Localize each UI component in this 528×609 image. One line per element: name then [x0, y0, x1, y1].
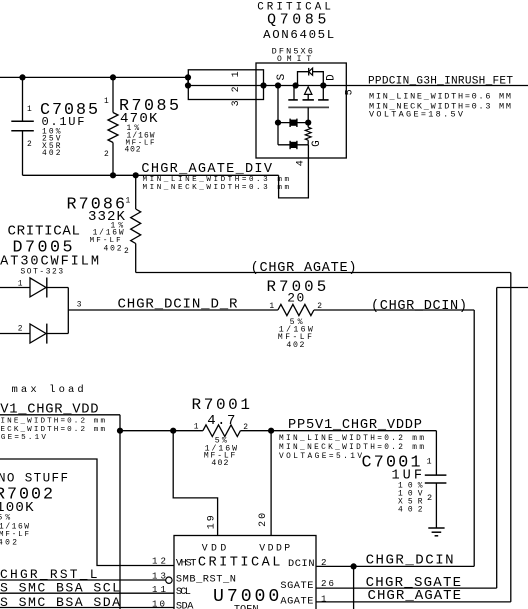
junction: [275, 120, 281, 126]
wire SMC_BSA_SCL: [0, 592, 174, 594]
junction: [351, 563, 357, 569]
svg-text:CHGR_DCIN: CHGR_DCIN: [366, 553, 454, 569]
svg-text:CRITICAL: CRITICAL: [198, 555, 281, 570]
svg-text:MIN_NECK_WIDTH=0.3 mm: MIN_NECK_WIDTH=0.3 mm: [143, 184, 290, 192]
svg-text:2: 2: [18, 325, 23, 334]
svg-text:VOLTAGE=18.5V: VOLTAGE=18.5V: [369, 109, 464, 119]
junction: [320, 82, 326, 88]
svg-text:CHGR_DCIN_D_R: CHGR_DCIN_D_R: [118, 297, 239, 313]
svg-text:MIN_NECK_WIDTH=0.2 mm: MIN_NECK_WIDTH=0.2 mm: [279, 444, 424, 452]
svg-text:402: 402: [0, 538, 17, 547]
svg-text:2: 2: [427, 493, 432, 503]
junction: [170, 428, 176, 434]
svg-text:VDDP: VDDP: [259, 542, 290, 553]
svg-text:5: 5: [345, 89, 356, 95]
resistor R7086: [131, 175, 141, 272]
resistor R7085: [108, 77, 118, 175]
U7000 pin 13 inversion bubble: [166, 577, 172, 583]
junction: [293, 82, 299, 88]
svg-text:1: 1: [269, 302, 274, 311]
PPDCIN net properties: [369, 92, 511, 120]
PP5V1_CHGR_VDD net properties: [0, 418, 105, 442]
svg-text:MIN_NECK_WIDTH=0.2 mm: MIN_NECK_WIDTH=0.2 mm: [0, 426, 105, 434]
wire D7005 common cathode: [67, 288, 69, 334]
wire zener row 2: [278, 144, 308, 146]
svg-text:1: 1: [27, 105, 32, 114]
svg-text:2: 2: [243, 423, 248, 432]
wire node CHGR_AGATE_DIV bottom rail: [23, 174, 279, 176]
svg-text:1: 1: [194, 422, 199, 431]
svg-text:1: 1: [321, 594, 327, 605]
junction: [185, 74, 191, 80]
svg-text:A max load: A max load: [0, 384, 84, 396]
Q7085 body diode: [298, 68, 324, 86]
svg-text:402: 402: [398, 505, 423, 514]
svg-text:3: 3: [231, 100, 242, 106]
svg-text:AGATE: AGATE: [280, 595, 313, 607]
svg-text:TQFN: TQFN: [234, 604, 259, 609]
R7005 value labels: [267, 278, 327, 350]
U7000 labels: [198, 542, 290, 609]
net CHGR_DCIN_D_R label: [118, 297, 239, 313]
R7001 value labels: [192, 396, 251, 468]
net S_SMC_BSA_SCL label: [0, 581, 120, 596]
wire top rail to Q7085 sources: [0, 77, 188, 85]
svg-text:1: 1: [126, 197, 131, 206]
svg-text:MIN_LINE_WIDTH=0.2 mm: MIN_LINE_WIDTH=0.2 mm: [0, 418, 105, 426]
svg-text:R7001: R7001: [192, 396, 251, 414]
net PP5V1_CHGR_VDD label: [0, 403, 99, 418]
CHGR_AGATE_DIV net properties: [143, 176, 290, 192]
net CHGR_DCIN label: [366, 553, 454, 569]
svg-text:S_SMC_BSA_SDA: S_SMC_BSA_SDA: [0, 595, 120, 609]
wire CHGR_DCIN row: [316, 566, 474, 609]
svg-text:DCIN: DCIN: [288, 558, 315, 570]
PP5V1_CHGR_VDDP net properties: [279, 435, 424, 461]
svg-text:AON6405L: AON6405L: [263, 28, 334, 42]
note max load: [0, 384, 84, 396]
resistor R7005: [278, 304, 314, 315]
junction: [117, 428, 123, 434]
svg-text:VHST: VHST: [176, 558, 197, 570]
wire CHGR_AGATE: [136, 273, 511, 602]
net (CHGR_AGATE) label: [251, 261, 357, 276]
wire CHGR_SGATE: [316, 288, 528, 589]
svg-text:26: 26: [321, 578, 334, 589]
svg-text:PP5V1_CHGR_VDDP: PP5V1_CHGR_VDDP: [288, 418, 422, 433]
net PP5V1_CHGR_VDDP label: [288, 418, 422, 433]
svg-text:402: 402: [42, 149, 61, 158]
junction: [19, 74, 25, 80]
C7085 value labels: [40, 101, 98, 158]
junction: [133, 172, 139, 178]
wire VHST from left: [0, 459, 174, 566]
svg-text:PPDCIN_G3H_INRUSH_FET: PPDCIN_G3H_INRUSH_FET: [368, 76, 513, 88]
junction: [185, 82, 191, 88]
R7086 value labels: [67, 196, 126, 254]
svg-text:2: 2: [104, 150, 109, 159]
C7001 value labels: [362, 454, 423, 515]
wire Q7085 internal source branch: [277, 86, 279, 145]
zener diode pair upper: [290, 119, 297, 127]
wire gate connection: [279, 145, 309, 198]
wire CHGR_RST_L: [0, 579, 166, 581]
svg-text:Q7085: Q7085: [267, 13, 326, 29]
svg-text:2: 2: [124, 247, 129, 256]
ground: [428, 528, 444, 536]
svg-text:VDD: VDD: [202, 542, 227, 553]
svg-text:20: 20: [258, 513, 269, 527]
svg-text:1: 1: [18, 279, 23, 288]
wire main S-D rail: [188, 85, 528, 87]
svg-text:402: 402: [125, 146, 141, 155]
wire PP5V1_CHGR_VDD: [0, 415, 120, 609]
wire zener row 1: [278, 122, 308, 124]
diode D7005 unit A: [0, 278, 68, 298]
svg-text:S: S: [276, 73, 288, 80]
capacitor C7001: [425, 431, 447, 528]
svg-text:(CHGR_DCIN): (CHGR_DCIN): [371, 299, 467, 314]
svg-text:S_SMC_BSA_SCL: S_SMC_BSA_SCL: [0, 581, 120, 596]
zener diode pair lower: [290, 141, 297, 149]
svg-text:3: 3: [77, 301, 82, 310]
junction: [110, 172, 116, 178]
svg-text:(CHGR_AGATE): (CHGR_AGATE): [251, 261, 357, 276]
transistor Q7085 body box: [256, 63, 346, 158]
diode D7005 unit B: [0, 324, 68, 344]
svg-text:CHGR_AGATE_DIV: CHGR_AGATE_DIV: [141, 162, 272, 177]
svg-text:SDA: SDA: [176, 600, 194, 609]
Q7085 mosfet symbol: [288, 86, 329, 123]
wire SMC_BSA_SDA: [0, 607, 174, 609]
junction: [275, 82, 281, 88]
svg-text:MIN_LINE_WIDTH=0.2 mm: MIN_LINE_WIDTH=0.2 mm: [279, 435, 424, 443]
net S_SMC_BSA_SDA label: [0, 595, 120, 609]
junction: [305, 120, 311, 126]
Q7085 internal gate resistor: [305, 123, 311, 145]
wire U7000 pin 20 VDDP: [270, 431, 272, 536]
Q7085 source pins 1 2 3 hub box: [188, 70, 263, 100]
net CHGR_RST_L label: [0, 567, 98, 582]
junction: [110, 74, 116, 80]
svg-text:402: 402: [286, 341, 304, 350]
svg-text:G: G: [311, 140, 323, 147]
net CHGR_SGATE label: [366, 575, 462, 591]
resistor R7001: [120, 425, 436, 437]
svg-text:SCL: SCL: [176, 586, 191, 598]
svg-text:CHGR_AGATE: CHGR_AGATE: [368, 588, 462, 604]
IC U7000 body box: [174, 536, 316, 609]
svg-text:2: 2: [27, 140, 32, 149]
svg-text:D: D: [326, 74, 338, 81]
wire U7000 pin 19 VDD: [173, 431, 217, 536]
svg-text:402: 402: [211, 459, 228, 468]
svg-text:402: 402: [104, 244, 122, 253]
svg-text:4: 4: [295, 160, 306, 166]
capacitor C7085: [11, 77, 34, 175]
transistor Q7085 title labels: [257, 2, 334, 65]
svg-text:NO STUFF: NO STUFF: [0, 472, 68, 486]
junction: [260, 82, 266, 88]
svg-text:SGATE: SGATE: [280, 580, 313, 592]
svg-text:20: 20: [287, 290, 304, 305]
svg-text:1: 1: [427, 457, 432, 467]
svg-text:CRITICAL: CRITICAL: [8, 224, 81, 240]
wire CHGR_DCIN_D_R: [68, 309, 278, 311]
svg-text:19: 19: [206, 515, 217, 529]
R7085 value labels: [119, 97, 179, 155]
net (CHGR_DCIN) label: [371, 299, 467, 314]
svg-text:MIN_LINE_WIDTH=0.3 mm: MIN_LINE_WIDTH=0.3 mm: [143, 176, 290, 184]
svg-text:1: 1: [231, 71, 242, 77]
junction: [268, 428, 274, 434]
wire CHGR_DCIN to right: [314, 310, 474, 566]
svg-text:1: 1: [104, 97, 109, 106]
svg-text:4.7: 4.7: [207, 413, 235, 429]
net PPDCIN_G3H_INRUSH_FET label: [368, 76, 513, 88]
svg-text:5%: 5%: [0, 514, 10, 523]
diode D7005 labels: [0, 224, 99, 277]
resistor R7002 labels (no stuff): [0, 472, 68, 548]
net CHGR_AGATE label: [368, 588, 462, 604]
svg-text:2: 2: [231, 86, 242, 92]
svg-text:VOLTAGE=5.1V: VOLTAGE=5.1V: [0, 434, 46, 442]
svg-text:VOLTAGE=5.1V: VOLTAGE=5.1V: [279, 453, 362, 461]
svg-text:MIN_LINE_WIDTH=0.6 MM: MIN_LINE_WIDTH=0.6 MM: [369, 92, 511, 102]
svg-text:SMB_RST_N: SMB_RST_N: [176, 573, 236, 585]
net CHGR_AGATE_DIV label: [141, 162, 272, 177]
